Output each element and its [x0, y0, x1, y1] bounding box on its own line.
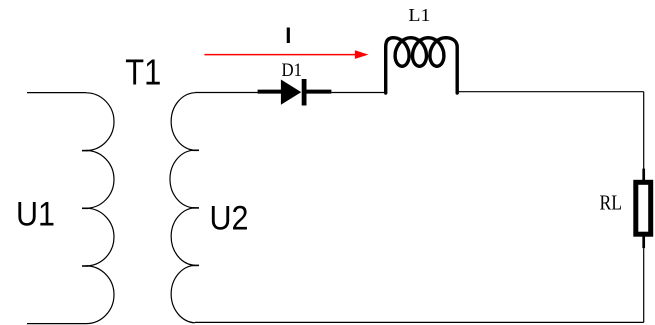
- wire right side bottom: [643, 248, 645, 322]
- transformer T1 primary winding U1: [86, 93, 114, 324]
- svg-text:U2: U2: [210, 199, 249, 237]
- svg-text:D1: D1: [282, 60, 303, 81]
- svg-text:T1: T1: [125, 52, 161, 93]
- wire U1 top lead: [27, 92, 86, 94]
- inductor L1: [386, 38, 458, 93]
- wire U2 top to diode D1: [195, 92, 259, 94]
- svg-text:I: I: [285, 23, 291, 48]
- current arrow I: [204, 50, 368, 59]
- transformer T1 secondary winding U2: [170, 93, 195, 323]
- wire bottom return: [195, 321, 644, 323]
- resistor RL: [636, 169, 651, 249]
- diode D1: [258, 79, 332, 106]
- svg-text:U1: U1: [16, 195, 55, 233]
- wire U1 bottom lead: [27, 323, 86, 325]
- wire right side top: [643, 92, 645, 169]
- wire L1 to top-right corner: [457, 91, 644, 93]
- svg-text:L1: L1: [408, 5, 430, 25]
- wire D1 to L1: [331, 92, 385, 94]
- U2 winding cusp ticks: [193, 150, 200, 265]
- svg-text:RL: RL: [600, 191, 623, 215]
- U1 winding cusp ticks: [82, 151, 89, 266]
